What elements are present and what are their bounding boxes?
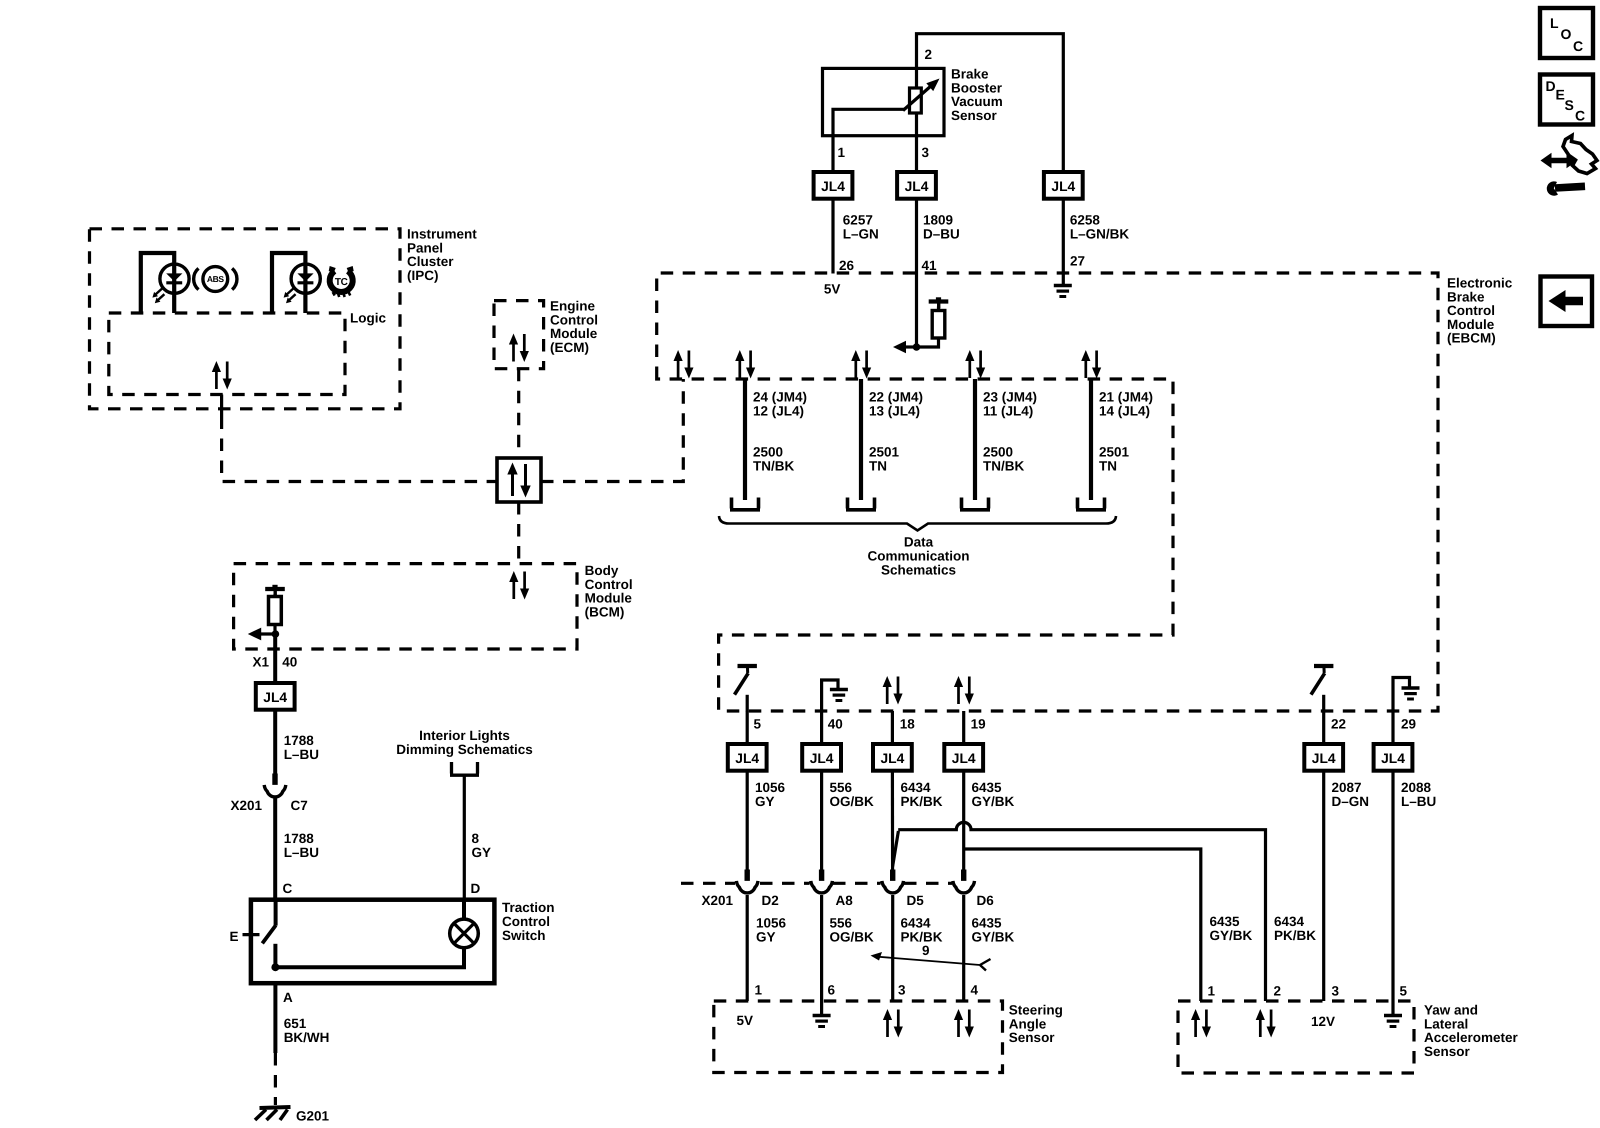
svg-text:40: 40 [828, 717, 843, 732]
svg-text:X201: X201 [702, 893, 734, 908]
female cup D6 [953, 881, 975, 893]
svg-text:G201: G201 [296, 1109, 330, 1124]
connector JL4 (pin 19) [944, 744, 983, 771]
svg-text:S: S [1565, 97, 1574, 113]
data wire B terminator [846, 498, 876, 510]
svg-text:Module: Module [1447, 317, 1495, 332]
icon ABS [194, 267, 237, 292]
wire pin5 to JL4 [746, 711, 749, 744]
svg-text:Vacuum: Vacuum [951, 94, 1003, 109]
ECM serial arrows [509, 334, 529, 363]
wire JL4 to X201 [273, 710, 277, 774]
svg-text:Control: Control [585, 577, 633, 592]
module box BCM (Body Control Module) [234, 564, 577, 649]
junction dot pin41 [913, 343, 921, 351]
svg-text:13 (JL4): 13 (JL4) [869, 404, 920, 419]
svg-text:E: E [1556, 87, 1565, 103]
svg-text:Accelerometer: Accelerometer [1424, 1030, 1519, 1045]
svg-text:TN/BK: TN/BK [983, 459, 1024, 474]
svg-text:3: 3 [898, 983, 906, 998]
svg-text:18: 18 [900, 717, 916, 732]
svg-text:1788: 1788 [284, 831, 315, 846]
ground (steering pin6) [813, 1001, 831, 1027]
module box Steering Angle Sensor [714, 1001, 1003, 1073]
EBCM switch pin 5 [735, 666, 757, 712]
svg-text:Sensor: Sensor [1424, 1044, 1471, 1059]
icon LOC box [1540, 8, 1593, 58]
branch wire 6434 (pin18 to yaw pin2) [893, 822, 1266, 1001]
svg-text:(EBCM): (EBCM) [1447, 331, 1496, 346]
svg-text:5V: 5V [737, 1013, 754, 1028]
svg-text:6434: 6434 [901, 916, 932, 931]
svg-text:24 (JM4): 24 (JM4) [753, 390, 807, 405]
data wire B [859, 379, 863, 500]
svg-text:Logic: Logic [350, 311, 386, 326]
svg-text:2087: 2087 [1332, 780, 1362, 795]
svg-text:Sensor: Sensor [951, 108, 998, 123]
svg-text:A: A [283, 990, 293, 1005]
wire JL4-19 to X201 D6 [962, 771, 965, 870]
junction dot BCM [272, 630, 280, 638]
svg-text:Control: Control [550, 312, 598, 327]
svg-text:2: 2 [925, 47, 933, 62]
svg-text:14 (JL4): 14 (JL4) [1099, 404, 1150, 419]
svg-text:2: 2 [1274, 984, 1282, 999]
svg-text:GY: GY [472, 845, 492, 860]
svg-text:22 (JM4): 22 (JM4) [869, 390, 923, 405]
inline connector X201 C7 [264, 774, 286, 797]
svg-text:40: 40 [282, 655, 297, 670]
svg-text:D: D [1546, 78, 1556, 94]
data wire B arrows [851, 350, 871, 379]
wire ECM serial dashed [517, 369, 520, 458]
svg-text:1056: 1056 [756, 916, 787, 931]
svg-text:L–GN/BK: L–GN/BK [1070, 227, 1130, 242]
svg-text:TN: TN [1099, 459, 1117, 474]
svg-text:1788: 1788 [284, 733, 315, 748]
svg-text:GY/BK: GY/BK [972, 794, 1015, 809]
sensor internal wire pin1 [833, 109, 905, 173]
wire JL4-27 to ground [1062, 199, 1065, 284]
wire JL4-5 to X201 D2 [746, 771, 749, 870]
svg-text:(IPC): (IPC) [407, 268, 439, 283]
svg-text:6435: 6435 [972, 780, 1003, 795]
svg-text:41: 41 [922, 258, 938, 273]
svg-text:GY: GY [756, 930, 776, 945]
wire JL4-29 to yaw pin5 [1391, 771, 1394, 1001]
sensor resistor [910, 88, 922, 113]
EBCM arrows pin 18 [883, 676, 903, 705]
svg-text:1056: 1056 [755, 780, 786, 795]
svg-text:2088: 2088 [1401, 780, 1432, 795]
connector JL4 (pin 26) [814, 172, 853, 199]
svg-text:5: 5 [1400, 984, 1408, 999]
switch lower contact wire [273, 944, 277, 967]
arrows steering pin3 [883, 1009, 903, 1038]
icon TC [329, 266, 354, 297]
svg-text:1809: 1809 [923, 213, 953, 228]
svg-text:2500: 2500 [753, 445, 783, 460]
junction dot switch [271, 963, 279, 971]
connector JL4 (pin 5) [728, 744, 767, 771]
switch stub E [243, 933, 260, 936]
data wire C terminator [960, 498, 990, 510]
svg-text:TC: TC [335, 277, 348, 288]
svg-text:TN/BK: TN/BK [753, 459, 794, 474]
svg-text:D: D [471, 881, 481, 896]
svg-text:1: 1 [838, 145, 846, 160]
svg-text:Interior Lights: Interior Lights [419, 728, 510, 743]
svg-text:D–GN: D–GN [1332, 794, 1370, 809]
serial entry arrows (EBCM) [674, 350, 694, 379]
svg-text:Body: Body [585, 563, 619, 578]
EBCM arrows pin 19 [954, 676, 974, 705]
logic box [109, 313, 345, 395]
wire pin22 to JL4 [1322, 711, 1325, 744]
svg-text:Communication: Communication [867, 549, 969, 564]
svg-text:1: 1 [755, 983, 763, 998]
component box Brake Booster Vacuum Sensor [823, 68, 945, 135]
svg-text:PK/BK: PK/BK [901, 794, 943, 809]
svg-text:Engine: Engine [550, 299, 595, 314]
EBCM ground pin 29 [1393, 678, 1420, 712]
connector JL4 (pin 41) [897, 172, 936, 199]
data wire D arrows [1081, 350, 1101, 379]
svg-text:2501: 2501 [869, 445, 900, 460]
svg-text:TN: TN [869, 459, 887, 474]
branch wire 6435 (pin19 to yaw pin1) [964, 849, 1201, 1001]
BCM tap symbol [265, 585, 285, 596]
svg-text:Instrument: Instrument [407, 227, 477, 242]
svg-text:1: 1 [1208, 984, 1216, 999]
svg-text:ABS: ABS [207, 274, 224, 284]
data wire A terminator [730, 498, 760, 510]
arrows yaw pin1 [1191, 1009, 1211, 1038]
svg-text:22: 22 [1331, 717, 1346, 732]
svg-text:2500: 2500 [983, 445, 1013, 460]
svg-text:Schematics: Schematics [881, 563, 956, 578]
svg-text:D2: D2 [762, 893, 779, 908]
svg-text:Lateral: Lateral [1424, 1016, 1468, 1031]
connector JL4 (pin 27) [1044, 172, 1083, 199]
EBCM pin41 pull-up tap [929, 297, 949, 308]
serial link node box [497, 458, 541, 502]
EBCM pin41 signal arrow [893, 341, 917, 353]
svg-text:19: 19 [971, 717, 986, 732]
wire pin19 to JL4 [962, 711, 965, 744]
sensor internal wire pin3 [915, 68, 918, 173]
svg-text:8: 8 [472, 831, 480, 846]
wire JL4-41 into EBCM [915, 199, 918, 347]
svg-text:Control: Control [1447, 303, 1495, 318]
svg-text:6257: 6257 [843, 213, 873, 228]
svg-text:GY/BK: GY/BK [972, 930, 1015, 945]
svg-text:5V: 5V [824, 282, 841, 297]
svg-text:Cluster: Cluster [407, 254, 454, 269]
wire JL4-40 to X201 A8 [820, 771, 823, 870]
data wire A arrows [735, 350, 755, 379]
switch blade [262, 900, 276, 944]
svg-text:Brake: Brake [1447, 289, 1485, 304]
wire IPC serial dashed [222, 417, 497, 482]
svg-text:6: 6 [828, 983, 836, 998]
icon connector-repair (double arrow, plug outline, wrench) [1541, 136, 1598, 196]
svg-text:D–BU: D–BU [923, 227, 960, 242]
wire JL4-18 to X201 D5 [891, 771, 894, 883]
wire IPC serial stub [220, 395, 223, 417]
arrows steering pin4 [954, 1009, 974, 1038]
wire D2 to steering pin1 [746, 895, 749, 1001]
svg-text:X201: X201 [231, 798, 263, 813]
svg-text:L–BU: L–BU [284, 747, 319, 762]
svg-text:GY/BK: GY/BK [1210, 928, 1253, 943]
svg-text:4: 4 [971, 983, 979, 998]
wire pin29 to JL4 [1391, 711, 1394, 744]
BCM serial arrows [509, 571, 529, 600]
svg-text:Yaw and: Yaw and [1424, 1003, 1478, 1018]
arrows yaw pin2 [1256, 1009, 1276, 1038]
BCM output arrow [248, 628, 276, 641]
icon back-arrow box [1541, 277, 1593, 327]
wire pin18 to JL4 [891, 711, 894, 744]
svg-text:C: C [1573, 38, 1583, 54]
module box Yaw and Lateral Accelerometer Sensor [1178, 1001, 1414, 1073]
svg-text:6258: 6258 [1070, 213, 1101, 228]
wire A8 to steering pin6 [820, 895, 823, 1001]
off-page bracket interior lights [450, 762, 479, 775]
svg-text:27: 27 [1070, 254, 1085, 269]
svg-text:26: 26 [839, 258, 855, 273]
brace data communication [719, 516, 1116, 531]
svg-text:11 (JL4): 11 (JL4) [983, 404, 1033, 419]
svg-text:Booster: Booster [951, 80, 1003, 95]
svg-text:L–BU: L–BU [284, 845, 319, 860]
svg-text:3: 3 [922, 145, 930, 160]
svg-text:O: O [1561, 26, 1572, 42]
svg-text:Module: Module [550, 326, 598, 341]
ground G201 [255, 1107, 291, 1120]
svg-text:Sensor: Sensor [1009, 1030, 1056, 1045]
data wire C arrows [965, 350, 985, 379]
male terminal D2 [745, 870, 750, 884]
EBCM pin41 resistor [917, 307, 945, 348]
svg-text:(ECM): (ECM) [550, 340, 589, 355]
serial link node arrows [507, 463, 530, 498]
wire serial link to BCM dashed [517, 502, 520, 564]
svg-text:Control: Control [502, 914, 550, 929]
svg-text:GY: GY [755, 794, 775, 809]
svg-text:Angle: Angle [1009, 1016, 1047, 1031]
wire D5 to steering pin3 [891, 895, 894, 1001]
svg-text:A8: A8 [836, 893, 854, 908]
connector JL4 (pin 22) [1304, 744, 1343, 771]
ground (yaw pin5) [1384, 1001, 1402, 1027]
wire JL4-22 to yaw pin3 [1322, 771, 1325, 1001]
BCM resistor [269, 594, 282, 634]
svg-text:3: 3 [1332, 984, 1340, 999]
svg-text:6434: 6434 [901, 780, 932, 795]
svg-text:29: 29 [1401, 717, 1416, 732]
lamp symbol [450, 919, 479, 948]
male terminal D6 [961, 870, 966, 884]
svg-text:6435: 6435 [972, 916, 1003, 931]
female cup A8 [811, 881, 833, 893]
module box ECM (Engine Control Module) [494, 301, 544, 369]
component box Traction Control Switch [251, 900, 495, 984]
wire X201 to switch pin C [273, 797, 277, 900]
svg-text:Steering: Steering [1009, 1003, 1063, 1018]
connector JL4 (BCM output) [256, 683, 295, 710]
wire JL4-26 to EBCM [831, 199, 834, 274]
svg-text:Traction: Traction [502, 900, 555, 915]
svg-text:Module: Module [585, 591, 633, 606]
svg-text:Switch: Switch [502, 928, 546, 943]
svg-text:E: E [230, 929, 239, 944]
IPC serial data arrows [212, 361, 232, 390]
connector JL4 (pin 29) [1374, 744, 1413, 771]
svg-text:Electronic: Electronic [1447, 276, 1513, 291]
svg-text:PK/BK: PK/BK [1274, 928, 1316, 943]
icon DESC box [1540, 75, 1593, 125]
svg-text:5: 5 [754, 717, 762, 732]
male terminal D5 [890, 870, 895, 884]
svg-text:C7: C7 [291, 798, 308, 813]
svg-text:D5: D5 [907, 893, 925, 908]
module box EBCM outline [657, 273, 1438, 711]
data wire D [1089, 379, 1093, 500]
wire D6 to steering pin4 [962, 895, 965, 1001]
wire switch pin A [273, 983, 277, 1053]
svg-text:12 (JL4): 12 (JL4) [753, 404, 804, 419]
svg-text:6435: 6435 [1210, 914, 1241, 929]
svg-text:BK/WH: BK/WH [284, 1030, 330, 1045]
svg-text:(BCM): (BCM) [585, 604, 625, 619]
connector JL4 (pin 40) [802, 744, 841, 771]
indicator lamp TC (LED) [272, 253, 320, 313]
svg-text:L–BU: L–BU [1401, 794, 1436, 809]
svg-text:2501: 2501 [1099, 445, 1130, 460]
svg-text:L–GN: L–GN [843, 227, 879, 242]
svg-text:OG/BK: OG/BK [830, 930, 875, 945]
female cup D5 [882, 881, 904, 893]
wire BCM pin X1-40 [273, 634, 277, 683]
connector JL4 (pin 18) [873, 744, 912, 771]
wire pin D to lamp [462, 900, 466, 919]
svg-text:Data: Data [904, 535, 934, 550]
svg-text:556: 556 [830, 916, 853, 931]
data wire A [743, 379, 747, 500]
wire sensor pin 2 [917, 34, 1064, 173]
female cup D2 [736, 881, 758, 893]
leader arrow 9 [871, 952, 991, 971]
svg-text:Dimming Schematics: Dimming Schematics [396, 742, 533, 757]
svg-text:Panel: Panel [407, 240, 443, 255]
svg-text:21 (JM4): 21 (JM4) [1099, 390, 1153, 405]
svg-text:OG/BK: OG/BK [830, 794, 875, 809]
male terminal A8 [819, 870, 824, 884]
svg-text:C: C [1575, 108, 1585, 124]
wire interior lights to pin D [463, 777, 466, 900]
connector row X201 dashes [681, 882, 952, 885]
data wire D terminator [1076, 498, 1106, 510]
svg-text:C: C [283, 881, 293, 896]
wire serial link to EBCM dashed [541, 379, 683, 482]
module box IPC (Instrument Panel Cluster) [90, 229, 401, 409]
wire pin40 to JL4 [820, 711, 823, 744]
wire to G201 dashed [274, 1053, 277, 1105]
data wire C [973, 379, 977, 500]
sensor wiper arrow [903, 79, 940, 111]
svg-text:6434: 6434 [1274, 914, 1305, 929]
svg-text:Brake: Brake [951, 67, 989, 82]
svg-text:9: 9 [922, 943, 930, 958]
ground (pin 27) [1054, 286, 1072, 297]
EBCM switch pin 22 [1311, 666, 1333, 712]
svg-text:L: L [1550, 15, 1559, 31]
EBCM ground pin 40 [822, 680, 848, 711]
svg-text:12V: 12V [1311, 1014, 1335, 1029]
svg-text:D6: D6 [977, 893, 995, 908]
svg-text:556: 556 [830, 780, 853, 795]
svg-text:23 (JM4): 23 (JM4) [983, 390, 1037, 405]
indicator lamp ABS (LED) [141, 253, 189, 313]
svg-text:651: 651 [284, 1016, 307, 1031]
switch internal wire to lamp [275, 948, 464, 968]
svg-text:X1: X1 [253, 655, 270, 670]
